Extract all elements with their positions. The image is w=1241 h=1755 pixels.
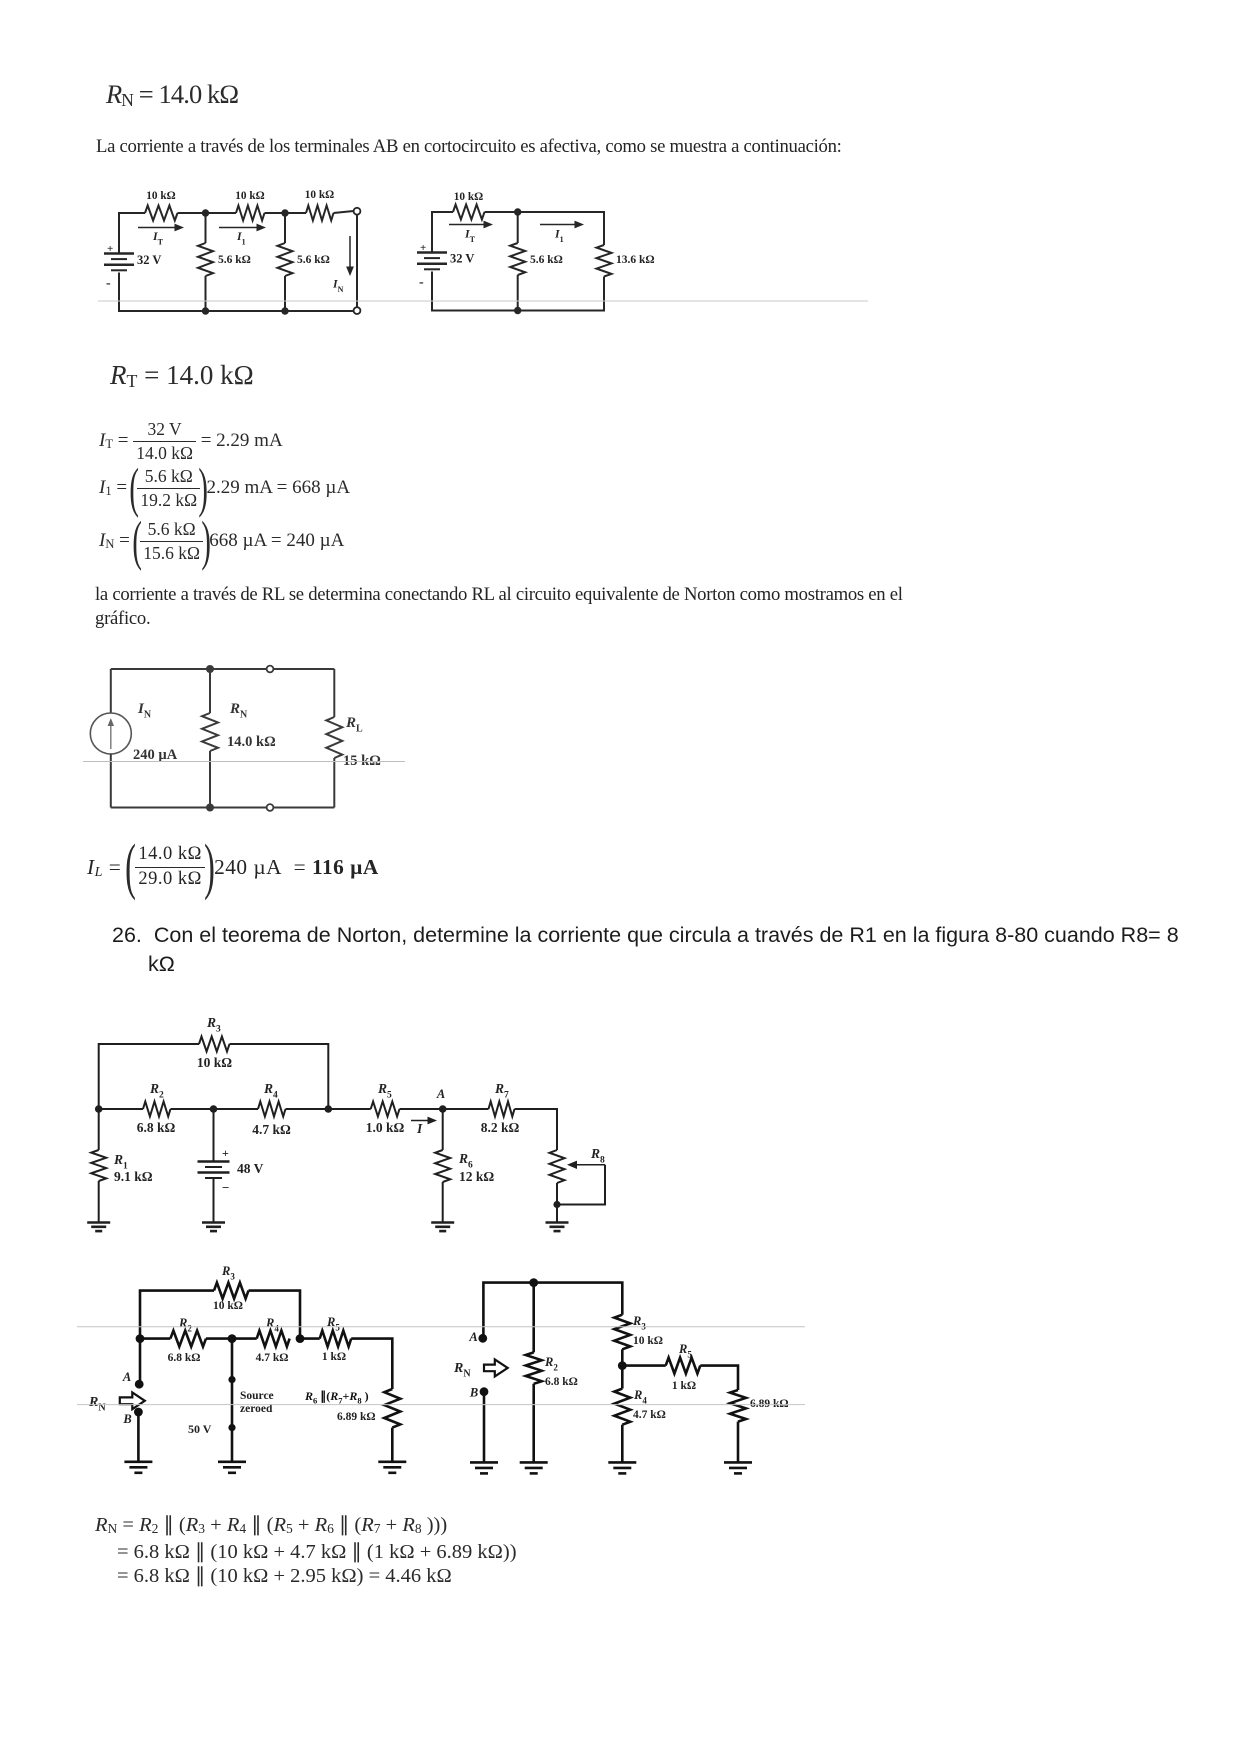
svg-text:R7: R7 [494, 1081, 509, 1101]
node junction 1 (circuit 1 top) [202, 209, 209, 216]
item 26 (sans-serif) [112, 921, 1179, 978]
current source I_N 240 µA [110, 669, 112, 713]
battery 32 V (circuit 1) [104, 252, 134, 255]
ground (fig4 left, below B) [124, 1461, 152, 1464]
svg-text:13.6 kΩ: 13.6 kΩ [616, 254, 655, 266]
svg-text:12 kΩ: 12 kΩ [459, 1169, 494, 1184]
svg-text:R4: R4 [265, 1316, 279, 1334]
wire : to right branch (fig 4 left) [351, 1339, 392, 1389]
svg-text:Source: Source [240, 1390, 274, 1402]
ground (below R8) [546, 1221, 569, 1224]
svg-text:R3: R3 [206, 1015, 221, 1035]
node junction (fig4 left, R3 reconnect) [296, 1334, 305, 1343]
svg-text:B: B [122, 1412, 131, 1426]
svg-text:10 kΩ: 10 kΩ [454, 191, 483, 203]
node junction (fig4 left, left node) [136, 1334, 145, 1343]
ground (fig4 left, source branch) [218, 1461, 246, 1464]
svg-text:50 V: 50 V [188, 1422, 212, 1436]
ground (fig4 right, below B) [470, 1461, 498, 1464]
resistor R1 9.1 kΩ [98, 1109, 100, 1150]
resistor R5 1 kΩ (fig 4 left) [300, 1337, 320, 1340]
svg-text:4.7 kΩ: 4.7 kΩ [256, 1352, 289, 1364]
scan artifact lines (figure 4) [77, 1326, 805, 1328]
resistor R6 12 kΩ [442, 1109, 444, 1150]
svg-text:32 V: 32 V [450, 252, 474, 266]
node junction (R3 right reconnect) [286, 1108, 329, 1110]
wire : R7 to R8 branch [515, 1109, 558, 1150]
svg-text:6.89 kΩ: 6.89 kΩ [750, 1398, 789, 1410]
resistor 5.6 kΩ (first shunt, circuit 1) [205, 213, 207, 243]
svg-text:R4: R4 [633, 1388, 647, 1406]
wire : B to ground (fig 4 left) [137, 1412, 140, 1462]
svg-text:10 kΩ: 10 kΩ [197, 1055, 232, 1070]
resistor R3 10 kΩ (fig 4 left) [214, 1283, 249, 1299]
node A [439, 1105, 447, 1113]
svg-text:R5: R5 [377, 1081, 392, 1101]
resistor R2 6.8 kΩ (fig 4 right) [532, 1283, 535, 1353]
equation I_L [87, 844, 379, 891]
zeroed source branch (fig 4 left) [231, 1339, 234, 1462]
svg-text:R8: R8 [590, 1146, 605, 1166]
current arrow I_T (circuit 1) [138, 227, 177, 229]
svg-text:-: - [106, 276, 111, 291]
final equation line 1 [95, 1512, 447, 1537]
resistor R2 6.8 kΩ [143, 1102, 171, 1117]
wire : circuit-1 right shorting wire [356, 215, 358, 308]
svg-text:4.7 kΩ: 4.7 kΩ [633, 1409, 666, 1421]
wire : R3 top branch (fig 4 left) [140, 1291, 300, 1339]
wiper wire of R8 [575, 1164, 605, 1166]
resistor R6||(R7+R8) 6.89 kΩ (fig 4 left) [384, 1389, 400, 1428]
current arrow I (into node A) [400, 1108, 443, 1110]
node junction (circuit 2 bottom) [514, 307, 521, 314]
ground (fig4 left, right branch) [378, 1461, 406, 1464]
svg-text:R6: R6 [458, 1151, 473, 1171]
node junction (fig4 right, R3-R4-R5) [621, 1349, 624, 1365]
svg-text:10 kΩ: 10 kΩ [305, 189, 334, 201]
final equation line 2 [117, 1539, 517, 1564]
svg-text:1 kΩ: 1 kΩ [672, 1380, 696, 1392]
svg-text:A: A [122, 1370, 131, 1384]
ground (fig4 right, below R4) [608, 1461, 636, 1464]
svg-text:10 kΩ: 10 kΩ [235, 190, 264, 202]
resistor 10 kΩ (third, circuit 1) [306, 206, 334, 221]
svg-text:R6 ∥(R7+R8 ): R6 ∥(R7+R8 ) [304, 1389, 369, 1406]
svg-text:8.2 kΩ: 8.2 kΩ [481, 1120, 520, 1135]
resistor 5.6 kΩ (circuit 2) [517, 212, 519, 243]
svg-text:−: − [222, 1180, 229, 1195]
heading R_T = 14.0 kOhm [110, 360, 254, 391]
resistor 5.6 kΩ (second shunt, circuit 1) [284, 213, 286, 243]
svg-text:1.0 kΩ: 1.0 kΩ [366, 1120, 405, 1135]
node junction (top of R_N) [206, 665, 214, 673]
svg-text:IN: IN [332, 277, 344, 295]
terminal A (fig 4 right) [478, 1334, 487, 1343]
svg-text:R2: R2 [544, 1355, 558, 1373]
resistor 13.6 kΩ (circuit 2) [597, 245, 612, 277]
equation I_N [99, 519, 344, 563]
battery 48 V [213, 1109, 215, 1161]
terminal B (fig 4 left) [134, 1408, 143, 1417]
svg-text:+: + [420, 242, 426, 254]
resistor R4 4.7 kΩ (fig 4 right) [621, 1366, 624, 1389]
svg-text:6.8 kΩ: 6.8 kΩ [545, 1376, 578, 1388]
resistor 10 kΩ (circuit 2) [453, 205, 485, 220]
svg-text:5.6 kΩ: 5.6 kΩ [218, 254, 251, 266]
resistor R5 1.0 kΩ [328, 1108, 370, 1110]
wire : middle row left [99, 1108, 143, 1110]
ground (below R6) [431, 1221, 454, 1224]
svg-text:B: B [469, 1386, 478, 1400]
svg-text:I1: I1 [554, 227, 564, 245]
current arrow I_1 (circuit 1) [219, 227, 259, 229]
resistor R_L 15 kΩ [333, 669, 335, 717]
svg-text:5.6 kΩ: 5.6 kΩ [530, 254, 563, 266]
wire : top wire (fig 4 right) [483, 1283, 622, 1338]
ground (below R1) [87, 1221, 110, 1224]
svg-text:32 V: 32 V [137, 253, 161, 267]
equation I_T [99, 419, 283, 463]
svg-text:10 kΩ: 10 kΩ [633, 1335, 663, 1347]
svg-text:R4: R4 [263, 1081, 278, 1101]
svg-text:I: I [416, 1121, 423, 1136]
svg-text:14.0 kΩ: 14.0 kΩ [227, 734, 276, 750]
heading R_N = 14.0 kOhm [106, 79, 238, 110]
node junction (circuit 1 bottom, under second shunt) [281, 307, 288, 314]
ground (below battery) [202, 1221, 225, 1224]
node junction (fig4 left, centre/source) [206, 1337, 232, 1340]
svg-text:R2: R2 [149, 1081, 164, 1101]
svg-text:R3: R3 [221, 1264, 235, 1282]
resistor 10 kΩ (second, circuit 1) [236, 206, 265, 221]
svg-text:10 kΩ: 10 kΩ [146, 190, 175, 202]
resistor R4 4.7 kΩ [214, 1108, 259, 1110]
svg-text:4.7 kΩ: 4.7 kΩ [252, 1122, 291, 1137]
node junction 2 (circuit 1 top) [281, 209, 288, 216]
paragraph 2 [95, 583, 903, 630]
current arrow I_1 (circuit 2) [540, 224, 577, 226]
svg-text:IT: IT [152, 229, 164, 247]
wire : circuit-1 outer loop and top wire [119, 211, 354, 253]
wire : Norton circuit top wire [111, 668, 334, 670]
svg-text:6.89 kΩ: 6.89 kΩ [337, 1411, 376, 1423]
terminal B (fig 4 right) [480, 1387, 489, 1396]
wire : circuit-2 top wire [432, 212, 604, 252]
node junction (battery top) [210, 1105, 218, 1113]
resistor R_N 14.0 kΩ [209, 669, 211, 713]
rheostat R8 [550, 1150, 565, 1183]
svg-text:IT: IT [464, 227, 476, 245]
battery 32 V (circuit 2) [417, 251, 447, 254]
terminal B (open, circuit 1 bottom right) [354, 307, 361, 314]
current arrow I_N (short-circuit current) [349, 236, 351, 269]
svg-text:A: A [436, 1087, 445, 1101]
svg-text:RN: RN [229, 701, 248, 721]
svg-text:6.8 kΩ: 6.8 kΩ [168, 1352, 201, 1364]
resistor R7 8.2 kΩ [443, 1108, 489, 1110]
svg-text:+: + [222, 1146, 229, 1160]
node junction (circuit 1 bottom, under first shunt) [202, 307, 209, 314]
wire : B to ground (fig 4 right) [483, 1392, 486, 1463]
svg-text:6.8 kΩ: 6.8 kΩ [137, 1120, 176, 1135]
svg-text:RN: RN [453, 1361, 471, 1380]
resistor R2 6.8 kΩ (fig 4 left) [140, 1337, 170, 1340]
resistor R4 4.7 kΩ (fig 4 left) [232, 1337, 257, 1340]
wire : circuit-1 bottom wire [119, 273, 354, 312]
svg-text:I1: I1 [236, 229, 246, 247]
svg-text:240 µA: 240 µA [133, 747, 178, 763]
svg-text:IN: IN [137, 701, 152, 721]
wire : R2 to battery node [171, 1108, 214, 1110]
resistor R5 1 kΩ (fig 4 right) [622, 1364, 665, 1367]
node junction (bottom of R_N) [206, 804, 214, 812]
svg-text:RL: RL [345, 715, 363, 735]
wire : Norton circuit bottom wire [111, 807, 334, 809]
svg-text:5.6 kΩ: 5.6 kΩ [297, 254, 330, 266]
svg-text:+: + [107, 243, 113, 255]
svg-text:9.1 kΩ: 9.1 kΩ [114, 1169, 153, 1184]
final equation line 3 [117, 1563, 452, 1588]
equation I_1 [99, 466, 350, 510]
resistor 10 kΩ (first, circuit 1) [145, 206, 178, 221]
node junction (circuit 2 top) [514, 208, 521, 215]
wire : circuit-2 bottom wire [432, 272, 604, 311]
svg-text:A: A [468, 1330, 477, 1344]
current arrow I_T (circuit 2) [449, 224, 486, 226]
node junction (fig4 right top) [529, 1278, 538, 1287]
svg-text:-: - [419, 275, 424, 290]
scan artifact line (figure 1) [98, 300, 868, 302]
svg-text:R3: R3 [632, 1314, 646, 1332]
terminal A (open, circuit 1 top right) [354, 208, 361, 215]
node junction (left, R1/R2) [95, 1105, 103, 1113]
svg-text:48 V: 48 V [237, 1161, 264, 1176]
resistor R3 10 kΩ (fig 4 right) [614, 1315, 630, 1350]
ground (fig4 right, far right) [724, 1461, 752, 1464]
ground (fig4 right, below R2) [520, 1461, 548, 1464]
terminal (open, bottom) [267, 804, 274, 811]
paragraph 1 [96, 136, 842, 158]
wire : R3 top branch [99, 1044, 329, 1109]
scan artifact line (figure 2) [83, 761, 405, 763]
node junction (R8 bottom) [553, 1201, 560, 1208]
terminal (open, top) [267, 666, 274, 673]
resistor 6.89 kΩ (fig 4 right) [700, 1366, 738, 1390]
svg-text:10 kΩ: 10 kΩ [213, 1300, 243, 1312]
terminal A (fig 4 left) [139, 1339, 142, 1383]
resistor R3 10 kΩ [199, 1037, 230, 1052]
svg-text:1 kΩ: 1 kΩ [322, 1351, 346, 1363]
